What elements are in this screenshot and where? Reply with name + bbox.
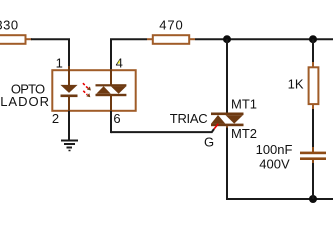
opto-coupler U1 box [52,70,135,111]
svg-text:100nF: 100nF [256,142,293,157]
svg-text:TRIAC: TRIAC [170,111,208,126]
svg-text:MT2: MT2 [231,126,257,141]
ground [61,141,78,151]
gate wire red segment [214,124,218,129]
wire capacitor to bottom rail [312,163,314,199]
wire rail down to TRIAC MT1 [226,39,228,112]
svg-text:6: 6 [113,111,120,126]
svg-text:330: 330 [0,18,19,33]
wire pin 6 down [110,111,112,133]
svg-text:470: 470 [159,17,183,32]
TRIAC Q1 [211,113,244,132]
gate wire [111,129,214,132]
pin 4 label [116,55,123,70]
wire pin 4 up to rail [111,39,147,69]
resistor R1 330 [0,18,32,44]
capacitor C1 [300,147,326,164]
svg-text:2: 2 [52,111,59,126]
wire 1K to capacitor [312,109,314,149]
resistor R3 1K [288,62,319,110]
bottom rail wire [226,198,333,200]
svg-text:1K: 1K [288,77,304,92]
svg-text:1: 1 [56,55,63,70]
wire MT2 down to bottom rail [226,128,228,199]
svg-text:G: G [204,134,214,149]
top rail wire [195,38,333,40]
svg-text:MT1: MT1 [231,97,257,112]
resistor R2 470 [147,17,195,44]
node junction bottom [309,195,317,203]
light arrows [83,83,91,97]
photo-triac inside opto [96,66,127,111]
wire rail down to 1K [312,39,314,63]
svg-text:400V: 400V [259,156,290,171]
node junction at TRIAC branch [223,35,231,43]
svg-text:LADOR: LADOR [0,94,50,109]
node junction at 1K branch [309,35,317,43]
wire pin 2 to ground [68,111,70,140]
wire from R1 to pin 1 [31,39,69,69]
LED D1 inside opto [60,66,77,111]
